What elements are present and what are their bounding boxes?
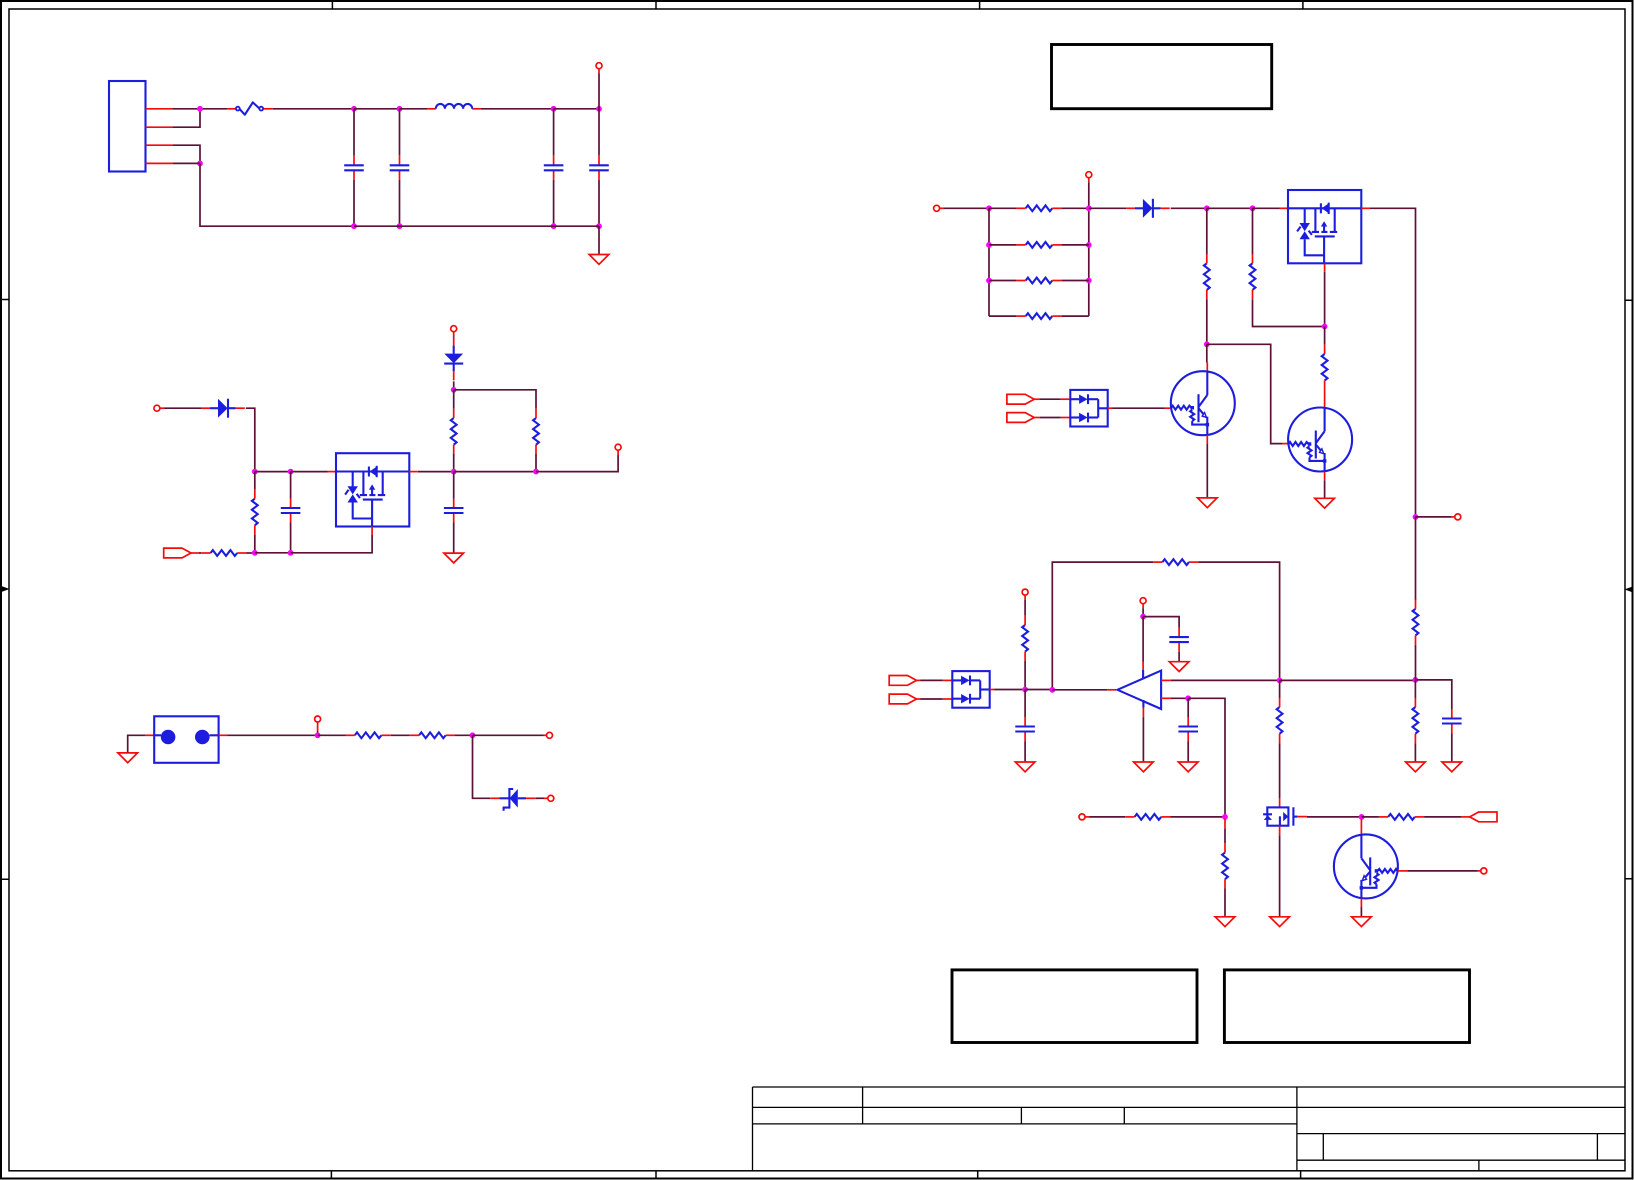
ground GND1	[589, 255, 609, 265]
resistor R11	[989, 244, 1089, 246]
border zone ticks left	[1, 300, 9, 880]
wire to MOSFET gate	[291, 535, 373, 553]
ground GND5	[1315, 498, 1335, 508]
jumper JP1	[146, 734, 155, 736]
node gate	[1322, 324, 1328, 330]
node divider	[1222, 814, 1228, 820]
node Q3 collector	[1359, 814, 1365, 820]
wire fuse to C1	[273, 108, 354, 110]
wire MOSFET right to vertical rail	[1361, 207, 1370, 209]
net flag IN1	[1007, 394, 1034, 404]
node switch net left	[252, 469, 258, 475]
wire node to pin P8	[1416, 516, 1452, 518]
wire C2 to L1	[400, 108, 428, 110]
wire R16 to Q2	[1324, 390, 1326, 400]
border zone ticks right	[1625, 300, 1633, 879]
capacitor C8	[1169, 628, 1189, 652]
wire power pin down	[1088, 182, 1090, 208]
resistor R19 below feedback node	[1279, 680, 1281, 698]
transistor Q1	[1171, 371, 1235, 435]
node C1 bottom	[351, 223, 357, 229]
wire R15 to gate node	[1253, 299, 1325, 326]
wire V+ down to op-amp	[1142, 617, 1144, 662]
wire R1 to net	[453, 454, 455, 472]
wire P11 to R21	[1090, 816, 1126, 818]
wire MOSFET right to output	[409, 471, 418, 473]
wire D7 out to op-amp	[990, 689, 995, 691]
resistor R23 on right rail	[1415, 598, 1417, 601]
node D5 out	[1204, 205, 1210, 211]
wire R19 down to Q6	[1279, 743, 1281, 798]
node pin3/pin4	[197, 161, 203, 167]
node R15 top	[1250, 205, 1256, 211]
pin P6	[548, 795, 554, 801]
resistor R15	[1252, 208, 1254, 254]
wire rail down to section 5	[1415, 517, 1417, 600]
MOSFET block Q5	[1288, 190, 1361, 263]
output pin P3	[615, 444, 621, 450]
wire D1 to corner down	[246, 408, 255, 471]
wire node to C5	[255, 471, 291, 473]
ground GND12	[1352, 917, 1372, 927]
node C2 top	[397, 106, 403, 112]
wire R8 to R9	[391, 734, 410, 736]
power pin VCC3	[1086, 172, 1092, 178]
wire R20 to ground	[1224, 889, 1226, 917]
capacitor C10	[1442, 709, 1462, 733]
wire Q1 collector	[1206, 344, 1208, 362]
wire to R2 node	[454, 471, 536, 473]
transistor Q3	[1334, 834, 1398, 898]
pin P9	[1022, 589, 1028, 595]
Q2 emitter stub	[1324, 472, 1326, 481]
node C4 bottom	[596, 223, 602, 229]
transistor Q2	[1288, 408, 1352, 472]
wire flag to R7	[191, 552, 199, 554]
pin P4 above node	[315, 716, 321, 722]
op-amp U2	[1117, 671, 1161, 709]
power pin VCC2	[451, 326, 457, 332]
wire C9 to ground	[1187, 741, 1189, 761]
node output branch	[1413, 514, 1419, 520]
wire R7 to node	[247, 552, 255, 554]
wire R18 to input net	[1024, 661, 1026, 690]
pin 1 of CN1	[146, 108, 173, 110]
op-amp V- pin	[1142, 700, 1144, 708]
wire flag to diode box	[1034, 398, 1040, 400]
power pin VCC4	[1140, 598, 1146, 604]
ground GND6	[1015, 762, 1035, 772]
left rail of resistor bank	[988, 208, 990, 316]
resistor R2	[533, 409, 539, 454]
node C1 top	[351, 106, 357, 112]
pin P12	[1481, 868, 1487, 874]
power pin VCC1	[596, 63, 602, 69]
capacitor C9	[1187, 698, 1189, 717]
wire Q3 emitter to ground	[1360, 907, 1362, 916]
pin P8	[1455, 514, 1461, 520]
wire R24 to ground	[1414, 743, 1416, 761]
wire jumper to node	[227, 734, 318, 736]
Q2 collector stub	[1324, 400, 1326, 408]
note box bottom left	[952, 970, 1197, 1043]
MOSFET block Q4	[336, 453, 409, 526]
wire ground up to jumper	[128, 735, 146, 752]
capacitor C2	[399, 109, 401, 226]
ground GND11	[1215, 917, 1235, 927]
pin P11	[1079, 814, 1085, 820]
node Q1 collector	[1204, 341, 1210, 347]
wire R2 to net	[535, 454, 537, 472]
wire C7 to ground	[1024, 741, 1026, 761]
ground rail wire	[354, 225, 599, 227]
node C2 bottom	[397, 223, 403, 229]
wire L1 to C3	[481, 108, 554, 110]
note box bottom right	[1224, 970, 1469, 1043]
wire pin to D1	[165, 407, 202, 409]
diode D1	[201, 399, 244, 418]
MOSFET gate stub	[1324, 263, 1326, 272]
output pin stub	[617, 450, 619, 455]
wire R21 to node	[1171, 816, 1226, 818]
ground GND8	[1134, 762, 1154, 772]
node right rail	[1413, 677, 1419, 683]
node feedback tap	[1049, 687, 1055, 693]
ground GND10	[1270, 917, 1290, 927]
op-amp -input wire	[1161, 697, 1171, 699]
ground GND9	[1178, 762, 1198, 772]
diode D5	[1126, 199, 1169, 218]
wire C8 to ground	[1178, 652, 1180, 662]
wire to ground	[598, 226, 600, 254]
node R1 bottom	[451, 469, 457, 475]
wire node to corner down	[1188, 698, 1225, 817]
resistor R9	[410, 732, 455, 738]
wire Q3 base to pin	[1407, 870, 1478, 872]
title block lines	[753, 1087, 1626, 1171]
node C3 top	[551, 106, 557, 112]
dual diode D6	[1070, 390, 1107, 427]
wire to output pin corner	[536, 455, 618, 472]
ground GND13	[1406, 762, 1426, 772]
wire pin2 up to pin1 net	[172, 109, 200, 127]
wire Q2 emitter to ground	[1324, 480, 1326, 498]
wire node into MOSFET block	[1253, 207, 1280, 209]
wire flag to diode box D7	[917, 698, 921, 700]
wire pin3 down	[173, 145, 200, 163]
wire node to C8	[1143, 617, 1179, 628]
wire power pin down	[598, 73, 600, 109]
wire flag to diode box	[1034, 417, 1040, 419]
wire pin to rail	[944, 207, 989, 209]
Q3 base stub	[1398, 870, 1407, 872]
resistor R7	[201, 550, 246, 556]
resistor R16	[1324, 327, 1326, 345]
node R18 bottom	[1022, 687, 1028, 693]
resistor R12	[989, 280, 1089, 282]
node V+	[1140, 614, 1146, 620]
resistor R24 below right node	[1414, 680, 1416, 698]
node rail A top	[986, 205, 992, 211]
wire R22 to flag	[1424, 816, 1461, 818]
resistor R1	[453, 390, 455, 409]
resistor R22 right of node	[1362, 816, 1379, 818]
diode D2 vertical	[444, 337, 463, 380]
ground GND3	[118, 753, 138, 763]
net flag OUT1	[1470, 812, 1497, 822]
resistor R3 below node	[254, 472, 256, 490]
node rail A r3	[986, 278, 992, 284]
Q1 emitter stub	[1206, 435, 1208, 444]
wire R23 to node	[1415, 645, 1417, 680]
capacitor C4	[598, 109, 600, 226]
Q3 emitter stub	[1360, 898, 1362, 907]
wire R9 to node	[455, 734, 473, 736]
resistor R13	[989, 315, 1089, 317]
wire pin1 to fuse	[172, 108, 227, 110]
node +input / feedback	[1277, 678, 1283, 684]
ground GND7	[1169, 662, 1189, 672]
wire pin4 net down to ground rail	[173, 163, 354, 226]
wire to C5 bottom	[255, 552, 291, 554]
inductor L1	[427, 104, 481, 109]
zener diode ZD1	[490, 789, 526, 811]
input pin P7	[934, 205, 940, 211]
wire node to pin P5	[473, 734, 544, 736]
wire node down to zener	[473, 735, 491, 798]
capacitor C5	[290, 472, 292, 553]
wire Q6 source to ground	[1279, 835, 1281, 916]
node C4 top	[596, 106, 602, 112]
node rail B top	[1086, 205, 1092, 211]
wire zener to pin P6	[526, 797, 536, 799]
node R3 bottom	[252, 550, 258, 556]
net flag GATE1	[164, 548, 191, 558]
wire C3 to C4 top	[554, 108, 599, 110]
wire node to node	[1025, 689, 1052, 691]
right rail of resistor bank	[1088, 208, 1090, 316]
node C5 bottom	[288, 550, 294, 556]
capacitor C1	[353, 109, 355, 226]
resistor R18	[1022, 616, 1028, 661]
net flag FB2	[889, 694, 916, 704]
ground GND2	[444, 553, 464, 563]
capacitor C7 below node	[1024, 690, 1026, 718]
capacitor C3	[553, 109, 555, 226]
border zone ticks bottom	[331, 1171, 1300, 1179]
node -input	[1185, 695, 1191, 701]
node C3 bottom	[551, 223, 557, 229]
net flag IN2	[1007, 413, 1034, 423]
wire gate down	[1324, 272, 1326, 327]
wire node to R2 branch	[454, 390, 536, 409]
wire node to right rail	[1280, 679, 1416, 681]
net flag FB1	[889, 676, 916, 686]
feedback wire up and over	[1052, 562, 1279, 690]
resistor R20 below node	[1224, 819, 1226, 829]
feedback resistor R17	[1153, 559, 1198, 565]
gate stub	[371, 527, 373, 536]
wire C1 to C2 top	[354, 108, 400, 110]
connector CN1	[109, 81, 146, 172]
wire D6 out to Q1 base	[1108, 407, 1113, 409]
wire D2 to node	[453, 381, 455, 389]
node pin1/pin2	[197, 106, 203, 112]
pin 4 of CN1	[146, 162, 174, 164]
border zone ticks top	[332, 1, 1303, 9]
wire C10 to ground	[1451, 733, 1453, 761]
resistor R14	[1206, 208, 1208, 254]
wire D5 to node	[1171, 207, 1207, 209]
fuse F1	[227, 102, 273, 114]
wire node over to C10	[1415, 680, 1451, 709]
capacitor C6 right	[453, 472, 455, 544]
centering arrow left	[2, 586, 10, 591]
pin 3 of CN1	[146, 144, 174, 146]
wire node to node	[1207, 207, 1253, 209]
wire node to R8	[318, 734, 346, 736]
resistor R8	[346, 732, 391, 738]
wire into MOSFET block	[291, 471, 328, 473]
wire Q6 gate to node	[1307, 816, 1362, 818]
resistor R21	[1125, 814, 1170, 820]
wire flag to diode box D7	[917, 679, 921, 681]
node rail A r2	[986, 242, 992, 248]
Q3 collector stub	[1360, 819, 1362, 835]
node rail B r3	[1086, 278, 1092, 284]
wire node to op-amp output	[1052, 689, 1107, 691]
node D2 out	[451, 387, 457, 393]
ground GND14	[1442, 762, 1462, 772]
note box top right	[1052, 45, 1272, 109]
node rail B r2	[1086, 242, 1092, 248]
wire rail to D5	[1089, 207, 1127, 209]
op-amp +input wire	[1161, 679, 1171, 681]
wire C6 to ground	[453, 544, 455, 553]
ground GND4	[1198, 498, 1218, 508]
MOSFET Q6	[1263, 798, 1307, 835]
centering arrow right	[1625, 587, 1633, 592]
resistor R10	[989, 207, 1089, 209]
wire power pin to D2	[453, 335, 455, 338]
node C5 top	[288, 469, 294, 475]
wire R14 to node	[1206, 299, 1208, 344]
wire Q1 node to Q2 base	[1207, 344, 1282, 443]
wire R3 to bottom rail	[254, 535, 256, 553]
node sense out	[470, 732, 476, 738]
dual diode D7	[952, 671, 989, 708]
wire VCC to node	[1142, 608, 1144, 616]
node sense in	[315, 732, 321, 738]
input pin P2	[154, 405, 160, 411]
pin P5	[547, 732, 553, 738]
wire P9 to R18	[1024, 600, 1026, 616]
node R2 bottom	[533, 469, 539, 475]
wire Q1 emitter to ground	[1206, 444, 1208, 497]
pin 2 of CN1	[146, 126, 173, 128]
